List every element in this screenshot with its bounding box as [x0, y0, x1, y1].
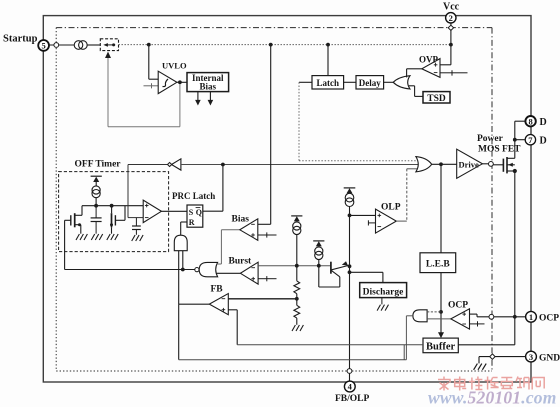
svg-text:Vcc: Vcc [443, 2, 460, 13]
IC outline box [43, 16, 531, 382]
OVP - reference stub [440, 70, 468, 75]
node junction dots on Vcc rail [147, 43, 151, 47]
switch SW1 (dashed box with contact) [100, 39, 118, 51]
pin 5 Startup [3, 34, 49, 51]
wire: Latch output down to drive OR [299, 81, 312, 83]
pin 4 FB/OLP [335, 381, 370, 404]
node: diamond marker Vcc crosses boundary [448, 25, 453, 30]
wire: OVP + input from Vcc [440, 64, 451, 66]
comparator OCP [448, 301, 470, 330]
capacitor C2 + ground (comparator ref) [132, 218, 141, 235]
current source I3 (divider) [291, 216, 302, 266]
wire: inverter output into off timer [128, 165, 168, 218]
svg-text:2: 2 [449, 13, 453, 23]
svg-text:D: D [540, 136, 547, 147]
inverter U4 [168, 159, 181, 170]
svg-text:OLP: OLP [381, 203, 401, 213]
control-block boundary left (dotted) [55, 28, 57, 371]
svg-text:7: 7 [528, 135, 533, 145]
wire: OCP pin to comparator + [470, 314, 526, 317]
svg-text:Startup: Startup [3, 34, 38, 45]
svg-text:Buffer: Buffer [426, 342, 455, 353]
node: UVLO output dot [178, 80, 182, 84]
node: boundary crossing marker on startup rail [54, 43, 59, 48]
comparator Burst [229, 257, 259, 285]
pin 1 OCP [526, 311, 560, 323]
ground (off timer M1) [76, 234, 87, 240]
wire: Vcc rail down to Latch [327, 45, 329, 76]
block: PRC latch (S Q / R) [187, 205, 203, 227]
power MOSFET Q2 [503, 157, 514, 173]
wire: FB + input down to buffer line [228, 310, 237, 345]
wire: Bias out to NOR input [217, 230, 240, 264]
wire: GND pin to ground [479, 357, 526, 364]
block: Discharge [360, 283, 407, 298]
svg-text:OCP: OCP [539, 314, 559, 324]
wire: Vcc pin down to OVP + [450, 23, 452, 65]
control-block boundary bottom (dotted) [56, 370, 492, 372]
block: Internal Bias [187, 73, 229, 92]
svg-text:L.E.B: L.E.B [426, 259, 450, 269]
arrowhead into switch [105, 52, 111, 58]
capacitor C1 (timing) [91, 206, 102, 234]
current source I1 (startup) [74, 41, 87, 50]
OFF timer dashed box [59, 172, 169, 252]
UVLO reference stub [144, 83, 159, 88]
transistor M1 (left, off timer) [65, 206, 82, 234]
block: Latch [312, 76, 344, 89]
wire: inverter input / PRC Q to drive OR [181, 164, 420, 166]
svg-text:3: 3 [529, 352, 533, 362]
wire: NOR output to off-timer gate [65, 220, 195, 269]
node: marker OCP line crosses boundary [489, 314, 494, 319]
node: marker FB/OLP crosses boundary [347, 369, 352, 374]
wire: OR out to Drive [432, 163, 457, 165]
wire: Burst out to NOR input [217, 272, 241, 274]
control-block boundary top (dash-dot) [56, 27, 492, 29]
wire: discharge link [350, 272, 383, 282]
wire: FB/OLP pin riser [349, 215, 351, 381]
wire: off-timer top rail [82, 205, 143, 207]
comparator UVLO [158, 61, 187, 94]
wire: AND input from NOR out [182, 251, 184, 270]
svg-text:Delay: Delay [359, 78, 381, 88]
AND gate U8 (ocp, points left) [413, 310, 427, 322]
comparator OVP [419, 55, 440, 78]
ground (off timer M2) [107, 234, 118, 240]
svg-text:Burst: Burst [229, 257, 253, 267]
svg-text:5: 5 [41, 41, 45, 51]
wire: UVLO out to Internal Bias [177, 81, 187, 83]
node: marker gate line crosses boundary [489, 162, 494, 167]
ground (GND pin) [474, 364, 487, 370]
wire: Vcc dotted rail across top [119, 44, 451, 46]
resistor R1 [294, 266, 300, 299]
wire: Latch-Delay [344, 81, 356, 83]
AND gate U5 (points up) [174, 235, 187, 251]
svg-text:OCP: OCP [448, 301, 468, 311]
current source I2 (off timer) [92, 186, 100, 206]
control-block boundary right (dash-dot) [491, 28, 493, 371]
block: Buffer [423, 338, 458, 353]
ground (discharge) [377, 298, 388, 311]
resistor R2 [294, 299, 300, 325]
OR gate U7 (drive, points right) [416, 157, 432, 172]
supply rail symbol (off timer) [91, 176, 102, 186]
svg-text:GND: GND [539, 353, 560, 363]
svg-text:4: 4 [348, 382, 353, 392]
transistor Q1 [319, 262, 349, 287]
block: TSD [423, 92, 450, 104]
wire: source down to OCP node [514, 171, 516, 317]
node dot [221, 163, 225, 167]
wire: drain to pins 7/8 [515, 121, 526, 158]
OR gate U2 (protection, points left) [393, 76, 410, 89]
buffer Drive [457, 149, 483, 178]
comparator OLP [376, 203, 401, 234]
svg-text:D: D [540, 117, 547, 128]
internal bias output arrows [195, 92, 213, 106]
pin 2 Vcc [443, 2, 460, 24]
svg-text:Bias: Bias [200, 82, 217, 92]
current source I4 (burst bias) [313, 241, 324, 266]
ground (divider) [292, 325, 303, 331]
svg-text:MOS FET: MOS FET [478, 145, 521, 155]
svg-text:S: S [189, 208, 194, 217]
wire: Drive out to gate [482, 163, 488, 165]
svg-text:TSD: TSD [427, 94, 446, 104]
svg-text:8: 8 [528, 116, 532, 126]
wire: startup rail pin5 to switch [49, 44, 100, 46]
node: drain junction dot [513, 138, 517, 142]
watermark chinese [438, 377, 544, 391]
svg-text:Latch: Latch [317, 78, 340, 88]
node: diamond marker GND line crosses boundary [490, 354, 495, 359]
wire: Delay-OR gate [384, 81, 394, 83]
Bias + reference stub [258, 232, 277, 237]
svg-text:Power: Power [477, 134, 504, 144]
svg-text:Discharge: Discharge [363, 287, 404, 297]
wire: FB+/buffer input line [237, 344, 423, 346]
wire: AND inputs [427, 311, 441, 313]
wire: OLP + input [350, 214, 376, 216]
wire: off timer comparator out to PRC S [161, 210, 187, 212]
wire: TSD to OR gate [409, 86, 423, 97]
svg-text:1: 1 [529, 312, 533, 322]
svg-text:Bias: Bias [232, 215, 250, 225]
wire: OVP out to OR gate [407, 69, 422, 78]
comparator FB [209, 285, 228, 315]
wire: OLP out up to drive OR (dashed) [396, 169, 417, 221]
supply + current source I5 (OLP) [344, 188, 356, 216]
wire: FB output left and down [179, 304, 210, 360]
ground (timing cap) [91, 234, 102, 240]
svg-text:Q: Q [196, 208, 202, 217]
svg-text:UVLO: UVLO [162, 61, 187, 71]
svg-text:FB/OLP: FB/OLP [335, 394, 370, 404]
comparator U3 (off timer) [143, 200, 161, 223]
svg-text:www.520101.com: www.520101.com [428, 388, 557, 407]
wire: LEB out down to buffer [440, 273, 442, 333]
svg-text:R: R [189, 218, 195, 227]
transistor M2 (right, off timer) [112, 206, 126, 234]
wire: lower return line [179, 345, 407, 360]
wire: UVLO sense drop [149, 45, 158, 80]
wire: AND input from FB out [178, 251, 180, 305]
wire: Bias - input from Vcc rail [258, 45, 271, 225]
wire: Burst - input to FB/OLP divider [258, 265, 331, 267]
svg-text:OFF Timer: OFF Timer [75, 160, 122, 170]
block: Delay [356, 76, 384, 89]
wire: gate lead [493, 164, 503, 166]
comparator Bias [232, 215, 258, 241]
wire: PRC Q up [203, 165, 223, 212]
NOR gate U6 (points left) [195, 262, 218, 276]
Burst + reference stub [258, 276, 276, 281]
wire: AND output detour to buffer input [406, 316, 413, 360]
block: L.E.B [420, 253, 456, 273]
svg-text:FB: FB [211, 285, 224, 295]
node: divider tap [295, 297, 299, 301]
svg-text:Drive: Drive [459, 159, 480, 169]
wire: buffer output to source/OCP node [458, 317, 515, 345]
wire: AND output to R [181, 222, 187, 235]
OCP - reference stub [470, 321, 485, 326]
wire: FB - input to divider tap [228, 298, 296, 300]
svg-text:PRC Latch: PRC Latch [172, 191, 215, 201]
pin 3 GND [526, 351, 560, 363]
wire: drive node down to LEB [440, 164, 442, 253]
OLP - reference stub [368, 220, 375, 225]
pins 8 and 7 D [525, 116, 547, 147]
wire: UVLO feedback to startup switch (gray) [108, 57, 180, 127]
